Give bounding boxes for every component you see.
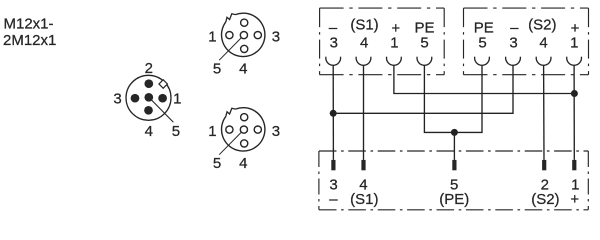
X1 body circle xyxy=(126,75,171,120)
X2 body circle with keyway gap xyxy=(222,13,265,56)
svg-text:2M12x1: 2M12x1 xyxy=(3,32,56,49)
svg-text:3: 3 xyxy=(113,91,121,108)
connector X1 male M12 face view xyxy=(126,75,173,122)
wire PE drop: junction down to P3.5 xyxy=(453,132,455,160)
dashed outline plug P3 (bottom box) xyxy=(319,151,588,210)
svg-text:(S1): (S1) xyxy=(350,191,378,208)
svg-text:2: 2 xyxy=(145,60,153,77)
svg-text:4: 4 xyxy=(539,34,547,51)
X3 keying notch zigzag xyxy=(226,108,236,116)
X2 pin 5 leader line xyxy=(219,35,244,60)
svg-text:3: 3 xyxy=(330,34,338,51)
X2 pin 5 center xyxy=(240,31,247,38)
X3 pin 1 xyxy=(226,126,233,133)
svg-text:1: 1 xyxy=(208,28,216,45)
P2 socket contact 1 xyxy=(567,57,582,66)
svg-text:(S2): (S2) xyxy=(528,17,556,34)
X1 pin number labels xyxy=(113,60,181,140)
wire plus: P2.1 down to P3.1 xyxy=(573,65,575,159)
connector X3 female M12 face view (bottom) xyxy=(219,108,265,155)
wire plus: P1.1 over to P2.1 column xyxy=(394,65,575,93)
X1 pin 4 xyxy=(144,106,153,115)
X3 pin number labels xyxy=(208,123,280,172)
X3 pin 5 leader line xyxy=(219,130,244,155)
X3 pin 5 center xyxy=(240,126,247,133)
svg-text:4: 4 xyxy=(239,61,247,78)
X1 pin 5 leader line xyxy=(149,97,174,122)
svg-text:1: 1 xyxy=(570,34,578,51)
dashed outline plug P1 (left top box) xyxy=(320,8,445,75)
svg-text:4: 4 xyxy=(145,123,153,140)
X2 keying notch zigzag xyxy=(226,14,236,22)
svg-text:(S2): (S2) xyxy=(531,191,559,208)
P3 pin numbers xyxy=(329,177,579,209)
connector X2 female M12 face view (top) xyxy=(219,13,265,60)
svg-text:1: 1 xyxy=(208,123,216,140)
X2 pin 4 xyxy=(241,45,248,52)
wire minus: P1.3 down to P3.3 xyxy=(332,65,334,159)
P1 socket contact 1 xyxy=(387,57,402,66)
P3 pin contact 5 xyxy=(452,160,456,170)
svg-text:M12x1-: M12x1- xyxy=(4,15,54,32)
X3 pin 2 xyxy=(241,114,248,121)
junction node plus xyxy=(571,90,578,97)
svg-text:–: – xyxy=(329,191,338,208)
svg-text:1: 1 xyxy=(173,91,181,108)
P1 socket contact 4 xyxy=(356,57,371,66)
X1 pin 3 xyxy=(131,94,140,103)
svg-text:3: 3 xyxy=(272,28,280,45)
P3 pin contact 2 xyxy=(542,160,546,170)
X2 pin 1 xyxy=(226,31,233,38)
P3 pin contact 1 xyxy=(572,160,576,170)
svg-text:5: 5 xyxy=(478,34,486,51)
svg-text:1: 1 xyxy=(390,34,398,51)
svg-text:4: 4 xyxy=(239,155,247,172)
X3 body circle with keyway gap xyxy=(222,108,265,151)
X2 pin 2 xyxy=(241,19,248,26)
X2 pin number labels xyxy=(208,28,280,77)
X1 pin 5 center xyxy=(144,93,153,102)
X3 pin 3 xyxy=(254,126,261,133)
svg-text:(S1): (S1) xyxy=(350,17,378,34)
wire PE: P1.5 over to P2.5 xyxy=(424,65,482,132)
P3 pin contact 4 xyxy=(361,160,365,170)
svg-text:+: + xyxy=(570,191,579,208)
P2 socket contact 5 xyxy=(475,57,490,66)
P1 socket contact 3 xyxy=(326,57,341,66)
X3 pin 4 xyxy=(241,140,248,147)
X2 pin 3 xyxy=(254,31,261,38)
svg-text:4: 4 xyxy=(360,34,368,51)
P2 socket contact 3 xyxy=(506,57,521,66)
dashed outline plug P2 (right top box) xyxy=(464,8,589,75)
P1 socket contact 5 xyxy=(417,57,432,66)
wire S2: P2.4 down to P3.2 xyxy=(543,65,545,159)
X1 keying notch xyxy=(159,80,167,88)
P3 pin contact 3 xyxy=(331,160,335,170)
P2 socket contact 4 xyxy=(536,57,551,66)
svg-text:5: 5 xyxy=(213,155,221,172)
P2 contact labels row xyxy=(474,17,580,52)
junction node PE xyxy=(451,129,458,136)
svg-text:3: 3 xyxy=(272,123,280,140)
junction node minus xyxy=(330,110,337,117)
svg-text:3: 3 xyxy=(509,34,517,51)
X1 pin 2 xyxy=(144,79,153,88)
P1 contact labels row xyxy=(329,17,435,52)
wire minus branch: junction to P2.3 xyxy=(333,65,513,113)
svg-text:(PE): (PE) xyxy=(439,191,469,208)
svg-text:5: 5 xyxy=(420,34,428,51)
wire S1: P1.4 down to P3.4 xyxy=(363,65,365,159)
svg-text:5: 5 xyxy=(213,61,221,78)
label M12x1-2M12x1 xyxy=(3,15,56,49)
svg-text:5: 5 xyxy=(172,123,180,140)
X1 pin 1 xyxy=(158,94,167,103)
